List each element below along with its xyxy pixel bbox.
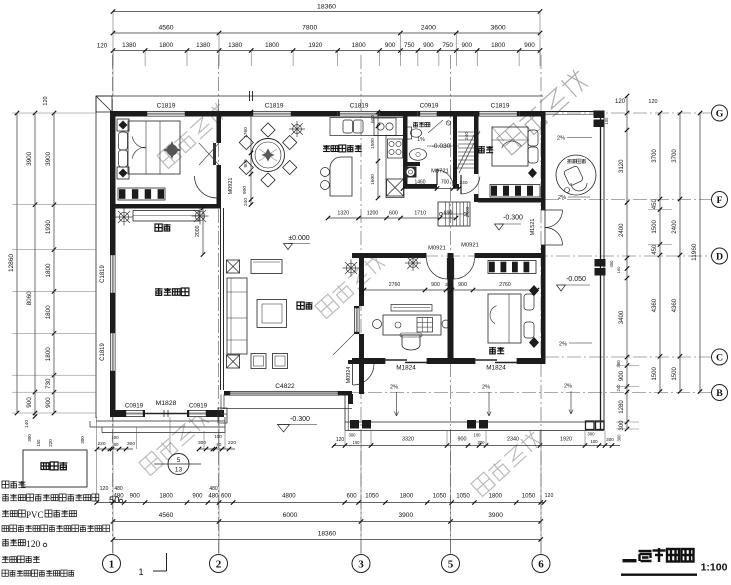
axis line 5 — [450, 55, 452, 554]
svg-text:7800: 7800 — [302, 25, 317, 32]
svg-text:3900: 3900 — [488, 512, 503, 519]
axis bubble G — [712, 105, 728, 121]
svg-text:3700: 3700 — [671, 149, 678, 163]
desk phone — [395, 322, 401, 328]
plant kitchen corner — [297, 128, 305, 130]
svg-text:2400: 2400 — [421, 25, 436, 32]
axis line B — [346, 392, 711, 394]
terrace west edge — [344, 395, 346, 431]
axis bubble D — [712, 248, 728, 264]
svg-text:1920: 1920 — [308, 42, 323, 49]
wall bedroomTL east — [217, 111, 222, 143]
window C1819 north-2 — [251, 111, 293, 117]
window C0919 south-1 — [124, 410, 145, 417]
stairs lower flight — [438, 202, 470, 226]
svg-text:6000: 6000 — [283, 512, 298, 519]
svg-text:450: 450 — [651, 244, 658, 255]
axis bubble 2 — [210, 555, 228, 573]
dim chain kitchen east rot — [377, 112, 379, 198]
svg-text:1460: 1460 — [414, 180, 425, 186]
kitchen appliance circles — [374, 118, 396, 136]
wall bath partition — [403, 162, 420, 166]
washing machine — [405, 167, 417, 178]
svg-text:100: 100 — [590, 439, 598, 444]
svg-text:-0.030: -0.030 — [432, 143, 451, 150]
label 卧室 TR — [478, 146, 485, 153]
svg-text:C1819: C1819 — [491, 103, 510, 110]
dining table — [252, 139, 285, 172]
svg-text:1200: 1200 — [367, 211, 379, 217]
svg-text:120: 120 — [615, 99, 626, 105]
svg-text:750: 750 — [442, 42, 453, 49]
svg-text:M0721: M0721 — [431, 169, 449, 175]
wardrobe bedroomTL — [118, 188, 165, 200]
svg-text:100: 100 — [353, 440, 361, 445]
watermark top-right — [497, 67, 591, 154]
svg-text:100: 100 — [474, 433, 482, 438]
svg-text:2000: 2000 — [195, 225, 201, 237]
svg-text:D: D — [716, 251, 723, 262]
svg-text:480: 480 — [208, 493, 219, 500]
window study west — [354, 306, 360, 334]
svg-text:120: 120 — [26, 540, 41, 550]
svg-text:M1828: M1828 — [156, 400, 177, 407]
dim chain top row3 — [113, 50, 540, 52]
svg-text:450: 450 — [609, 260, 614, 268]
sliding door M1824-2 — [475, 359, 497, 361]
svg-text:220: 220 — [48, 439, 53, 447]
bed bedroomTR — [492, 127, 528, 166]
svg-text:G: G — [716, 108, 724, 119]
wall bath east — [453, 111, 457, 184]
svg-text:750: 750 — [404, 42, 415, 49]
svg-text:360: 360 — [616, 360, 621, 368]
svg-text:900: 900 — [192, 493, 203, 500]
svg-text:2: 2 — [216, 558, 222, 570]
label 卧室 BR — [489, 347, 496, 354]
top extension lines — [112, 51, 114, 67]
axis line 2 — [218, 55, 220, 554]
svg-text:-0.300: -0.300 — [503, 215, 523, 222]
svg-text:3320: 3320 — [402, 437, 414, 443]
watermark logo dark — [163, 141, 181, 159]
svg-text:1050: 1050 — [365, 493, 379, 500]
kitchen counter east — [386, 136, 404, 198]
dim chain right R2 — [659, 113, 661, 392]
kitchen xbox — [387, 179, 404, 196]
svg-text:M1824: M1824 — [486, 365, 506, 372]
svg-text:300: 300 — [617, 434, 622, 442]
svg-text:C1819: C1819 — [157, 103, 176, 110]
bottom B2 chain — [97, 502, 544, 504]
axis bubble 3 — [352, 555, 370, 573]
toilet — [407, 127, 412, 139]
kitchen stove — [388, 139, 403, 158]
svg-text:1280: 1280 — [618, 400, 625, 414]
svg-text:150: 150 — [36, 439, 41, 447]
svg-text:3900: 3900 — [45, 151, 52, 166]
svg-text:300: 300 — [606, 437, 614, 442]
svg-text:18360: 18360 — [318, 531, 337, 538]
svg-text:300: 300 — [478, 440, 486, 445]
shelf study — [391, 305, 432, 312]
svg-text:2400: 2400 — [618, 223, 625, 237]
svg-text:1600: 1600 — [370, 174, 376, 185]
svg-text:1800: 1800 — [265, 42, 280, 49]
svg-text:C1819: C1819 — [100, 265, 106, 283]
notes line7 — [2, 570, 8, 576]
svg-text:M0921: M0921 — [228, 178, 234, 195]
svg-text:PVC: PVC — [26, 510, 44, 520]
detail circle 5/13 — [168, 454, 189, 475]
dining chairs — [283, 160, 297, 174]
fan bedroomBR-1 — [529, 285, 539, 296]
bath slope line — [428, 120, 443, 133]
svg-text:900: 900 — [524, 42, 535, 49]
svg-text:1:100: 1:100 — [701, 562, 728, 574]
svg-text:4360: 4360 — [671, 298, 678, 312]
svg-text:C: C — [716, 352, 723, 363]
plant study-2 — [413, 262, 421, 264]
stairs upper flight — [458, 131, 474, 133]
svg-text:3700: 3700 — [651, 149, 658, 163]
svg-text:2760: 2760 — [499, 282, 511, 288]
watermark top-left — [157, 101, 229, 168]
floor drain — [446, 121, 450, 125]
wall living west thin — [220, 208, 222, 390]
porch column D — [595, 259, 606, 267]
svg-text:480: 480 — [114, 486, 123, 492]
dim chain left L1 12860 — [16, 113, 18, 413]
tv bench — [251, 260, 282, 274]
svg-text:100: 100 — [214, 434, 222, 439]
svg-text:120: 120 — [43, 96, 49, 105]
axis line G — [545, 112, 711, 114]
wall bedroomTL south — [110, 204, 221, 209]
terrace column 1 — [350, 420, 359, 429]
svg-text:12860: 12860 — [8, 254, 15, 272]
svg-text:4800: 4800 — [282, 493, 296, 500]
fan bedroomBR-2 — [529, 337, 539, 348]
window C1819 north-3 — [338, 111, 380, 117]
svg-text:1760: 1760 — [243, 127, 249, 138]
svg-text:2400: 2400 — [465, 206, 471, 217]
label 户外观景 — [567, 159, 571, 163]
notes line4 — [2, 526, 9, 532]
chair study — [402, 335, 420, 350]
window C1819 north-4 — [477, 111, 519, 117]
wall bedroomTR south — [478, 198, 541, 203]
svg-text:3600: 3600 — [491, 25, 506, 32]
svg-text:5: 5 — [177, 457, 181, 464]
coffee table — [257, 300, 287, 328]
svg-text:1320: 1320 — [337, 211, 349, 217]
sliding door M1824-1 — [385, 359, 407, 361]
axis bubble F — [712, 192, 728, 208]
svg-text:±0.000: ±0.000 — [288, 235, 309, 242]
eave corner box — [96, 96, 112, 112]
axis bubble 6 — [532, 555, 550, 573]
notes line6 — [2, 556, 9, 563]
svg-text:1710: 1710 — [414, 211, 426, 217]
axis line 1 — [112, 55, 114, 554]
window C1819 west-2 — [110, 331, 116, 373]
svg-text:80: 80 — [114, 442, 119, 447]
axis bubble B — [712, 385, 728, 401]
stool living-2 — [273, 354, 288, 369]
kitchen stools — [321, 168, 330, 177]
terrace column 3 — [586, 421, 595, 430]
dim chain left L3 — [53, 113, 55, 413]
wardrobe bedroomBR — [488, 261, 536, 274]
svg-text:2400: 2400 — [671, 220, 678, 234]
svg-text:C0919: C0919 — [125, 403, 144, 410]
wardrobe bedroomTR — [490, 185, 540, 198]
axis line 3 — [360, 55, 362, 554]
door M1828 opening — [145, 410, 187, 417]
svg-text:240: 240 — [616, 384, 621, 392]
svg-text:2340: 2340 — [507, 437, 519, 443]
svg-text:900: 900 — [130, 493, 141, 500]
svg-text:3900: 3900 — [26, 151, 33, 166]
notes line3 — [2, 510, 9, 517]
svg-text:C1819: C1819 — [100, 343, 106, 361]
svg-text:300: 300 — [587, 432, 595, 437]
axis line C — [545, 356, 711, 358]
bench 玄关 — [133, 211, 199, 222]
bottom B4 chain — [113, 539, 541, 541]
svg-text:900: 900 — [458, 282, 467, 288]
svg-text:80: 80 — [217, 442, 222, 447]
svg-text:900: 900 — [242, 186, 248, 194]
svg-text:100: 100 — [604, 117, 609, 125]
door M0921 bedroomTL — [213, 143, 216, 165]
svg-text:1800: 1800 — [352, 42, 367, 49]
svg-text:900: 900 — [458, 437, 467, 443]
plant 玄关 left — [124, 216, 133, 218]
svg-text:-0.050: -0.050 — [566, 276, 586, 283]
dim chain right R4 — [699, 113, 701, 392]
svg-text:1380: 1380 — [196, 42, 211, 49]
dim chain dining west — [250, 112, 252, 205]
window C0919 south-2 — [187, 410, 208, 417]
svg-text:450: 450 — [651, 199, 658, 210]
terrace column 2 — [467, 420, 476, 429]
stool living-1 — [251, 354, 266, 369]
dim chain bottom B1 right cluster — [199, 448, 235, 450]
svg-text:M0924: M0924 — [346, 367, 352, 384]
svg-text:120: 120 — [97, 43, 108, 50]
watermark bottom-left — [139, 408, 211, 475]
label 客厅 — [297, 302, 304, 309]
svg-text:M0921: M0921 — [461, 243, 479, 249]
svg-text:2%: 2% — [390, 385, 398, 391]
svg-text:300: 300 — [127, 441, 135, 447]
svg-text:600: 600 — [370, 115, 376, 123]
svg-text:4360: 4360 — [651, 298, 658, 312]
svg-text:120: 120 — [100, 486, 109, 492]
svg-text:240: 240 — [445, 282, 453, 287]
svg-text:2%: 2% — [558, 195, 566, 201]
notes line2 — [2, 494, 9, 501]
svg-text:600: 600 — [221, 493, 232, 500]
wall east — [541, 111, 546, 210]
dim chain top row2 — [113, 32, 540, 34]
svg-text:1920: 1920 — [560, 437, 572, 443]
svg-text:13: 13 — [175, 467, 183, 474]
dim chain kitchen south — [328, 217, 456, 219]
svg-text:3400: 3400 — [618, 310, 625, 324]
dim chain right R3 — [679, 113, 681, 392]
svg-text:140: 140 — [24, 420, 30, 428]
door M0921 bedroomBR — [453, 258, 455, 279]
svg-text:1800: 1800 — [45, 347, 52, 362]
svg-text:6: 6 — [538, 558, 544, 570]
svg-text:1050: 1050 — [433, 493, 447, 500]
svg-text:M1824: M1824 — [396, 365, 416, 372]
svg-text:2%: 2% — [482, 385, 490, 391]
bottom B3 chain — [113, 521, 541, 523]
svg-text:300: 300 — [349, 433, 357, 438]
svg-text:M0921: M0921 — [428, 246, 446, 252]
svg-text:1800: 1800 — [489, 493, 503, 500]
svg-text:900: 900 — [423, 42, 434, 49]
label 入户大厅 — [155, 288, 163, 296]
dim chain bottom B1 left cluster — [97, 448, 133, 450]
wall south study-bedroom — [352, 358, 385, 364]
door M0924 — [352, 364, 354, 385]
svg-text:220: 220 — [228, 440, 236, 446]
stool study-1 — [373, 320, 382, 329]
eave overhang line west+north — [95, 96, 97, 418]
wall study west — [359, 253, 364, 306]
dim chain top row1 18360 — [113, 11, 540, 13]
svg-text:1800: 1800 — [159, 42, 174, 49]
wall west — [110, 111, 116, 253]
svg-text:2%: 2% — [559, 342, 567, 348]
wall living south — [224, 391, 228, 396]
title underline — [621, 574, 697, 576]
xbox living-2 — [227, 355, 240, 368]
svg-text:C0919: C0919 — [189, 403, 208, 410]
label 玄关 — [155, 224, 162, 231]
svg-text:300: 300 — [198, 440, 206, 446]
svg-text:1500: 1500 — [651, 220, 658, 234]
wall south entry — [110, 410, 124, 417]
dim chain bottom B1 terrace — [333, 445, 620, 447]
svg-text:220: 220 — [97, 441, 105, 447]
svg-text:300: 300 — [27, 434, 32, 442]
entry steps — [96, 420, 225, 422]
bed bedroomBR — [488, 294, 521, 343]
door M0721 — [436, 169, 438, 185]
svg-text:C4822: C4822 — [275, 383, 295, 390]
door M1521 double opening — [541, 209, 545, 211]
svg-text:1800: 1800 — [159, 493, 173, 500]
svg-text:M1521: M1521 — [530, 219, 536, 236]
bed bedroomTL — [128, 121, 180, 174]
svg-text:11960: 11960 — [691, 243, 698, 261]
label 化粪池 — [41, 463, 49, 470]
svg-text:690: 690 — [444, 211, 453, 217]
bottom extension lines — [112, 417, 114, 555]
monitor grid — [417, 318, 433, 333]
kitchen counter top — [330, 118, 404, 136]
svg-text:3: 3 — [358, 558, 364, 570]
svg-text:C1819: C1819 — [350, 103, 369, 110]
svg-text:-0.300: -0.300 — [290, 416, 310, 423]
axis bubble C — [712, 349, 728, 365]
terrace step edge below living — [222, 408, 352, 410]
svg-text:1: 1 — [109, 558, 115, 570]
axis line D — [380, 255, 711, 257]
dim chain bath — [403, 188, 459, 190]
svg-text:900: 900 — [385, 42, 396, 49]
fan bedroomTR — [528, 168, 537, 178]
svg-text:1380: 1380 — [228, 42, 243, 49]
door M0921 bedroomTR — [478, 174, 480, 194]
svg-text:1050: 1050 — [522, 493, 536, 500]
watermark bottom-right — [471, 429, 543, 496]
svg-text:F: F — [717, 195, 723, 206]
window C4822 — [228, 391, 340, 396]
svg-text:1380: 1380 — [122, 42, 137, 49]
svg-text:50: 50 — [109, 495, 120, 506]
wall bath south — [403, 184, 437, 189]
label 卫生间 — [413, 122, 418, 127]
door M0921 study — [447, 258, 449, 279]
break mark top wall — [249, 91, 251, 101]
left extension lines — [12, 112, 96, 114]
svg-text:B: B — [716, 388, 723, 399]
kitchen sink — [343, 120, 353, 133]
svg-text:900: 900 — [462, 42, 473, 49]
window C1819 west-1 — [110, 253, 116, 295]
svg-text:2%: 2% — [564, 384, 572, 390]
title 一层平面图 — [623, 559, 637, 562]
svg-text:1500: 1500 — [370, 138, 376, 149]
svg-text:160: 160 — [616, 266, 621, 273]
wall divider study-bedroomBR — [448, 258, 454, 358]
svg-text:8060: 8060 — [26, 291, 33, 306]
window C0919 north — [418, 111, 439, 117]
svg-text:700: 700 — [441, 180, 450, 186]
svg-text:3900: 3900 — [398, 512, 413, 519]
dim chain right R1 — [626, 96, 628, 429]
dim chain left L2 — [34, 113, 36, 417]
label 开放式厨房 — [323, 145, 330, 152]
svg-text:1800: 1800 — [45, 305, 52, 320]
plant study-1 — [351, 267, 360, 269]
svg-text:2760: 2760 — [389, 282, 401, 288]
outdoor table 户外观景 — [556, 155, 596, 195]
sofa living — [227, 278, 247, 354]
svg-text:240: 240 — [464, 132, 470, 140]
svg-text:1800: 1800 — [491, 42, 506, 49]
svg-text:900: 900 — [618, 370, 625, 381]
plant 玄关 right — [200, 215, 209, 217]
svg-text:C0919: C0919 — [420, 103, 439, 110]
svg-text:3120: 3120 — [618, 159, 625, 173]
axis bubble 5 — [442, 555, 460, 573]
desk study — [383, 315, 441, 335]
notes line1 — [2, 481, 9, 488]
dim 2000 vertical — [202, 208, 204, 255]
svg-text:900: 900 — [26, 397, 33, 408]
svg-text:1%: 1% — [417, 137, 425, 143]
svg-text:120: 120 — [545, 493, 554, 499]
svg-text:480: 480 — [209, 486, 218, 492]
